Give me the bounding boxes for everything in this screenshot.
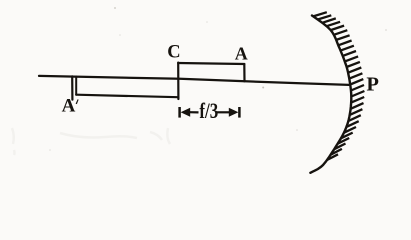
dimension right arrowhead bbox=[229, 108, 239, 117]
common vertical through C bbox=[177, 63, 179, 99]
object top edge C to A bbox=[178, 63, 244, 64]
image bottom edge bbox=[76, 95, 178, 98]
dimension left arrowhead bbox=[181, 108, 191, 117]
faint bleed-through smudges bbox=[12, 128, 170, 155]
dimension right shaft bbox=[217, 111, 230, 113]
svg-text:A: A bbox=[235, 43, 248, 63]
svg-text:A: A bbox=[62, 96, 76, 117]
object right edge at A bbox=[243, 64, 245, 81]
label A' prime bbox=[76, 99, 79, 104]
image inner corner double stroke bbox=[75, 77, 77, 95]
svg-text:C: C bbox=[167, 43, 180, 63]
paper speckles bbox=[49, 29, 387, 151]
dimension right tick bbox=[238, 107, 241, 118]
svg-text:P: P bbox=[366, 73, 379, 95]
image edge A' left vertical bbox=[71, 76, 73, 99]
optical axis bbox=[39, 76, 349, 85]
svg-text:f/3: f/3 bbox=[199, 100, 218, 124]
mirror back hatching bbox=[313, 12, 364, 160]
dimension left tick bbox=[178, 107, 181, 118]
concave mirror arc bbox=[310, 16, 351, 173]
dimension left shaft bbox=[189, 111, 199, 113]
